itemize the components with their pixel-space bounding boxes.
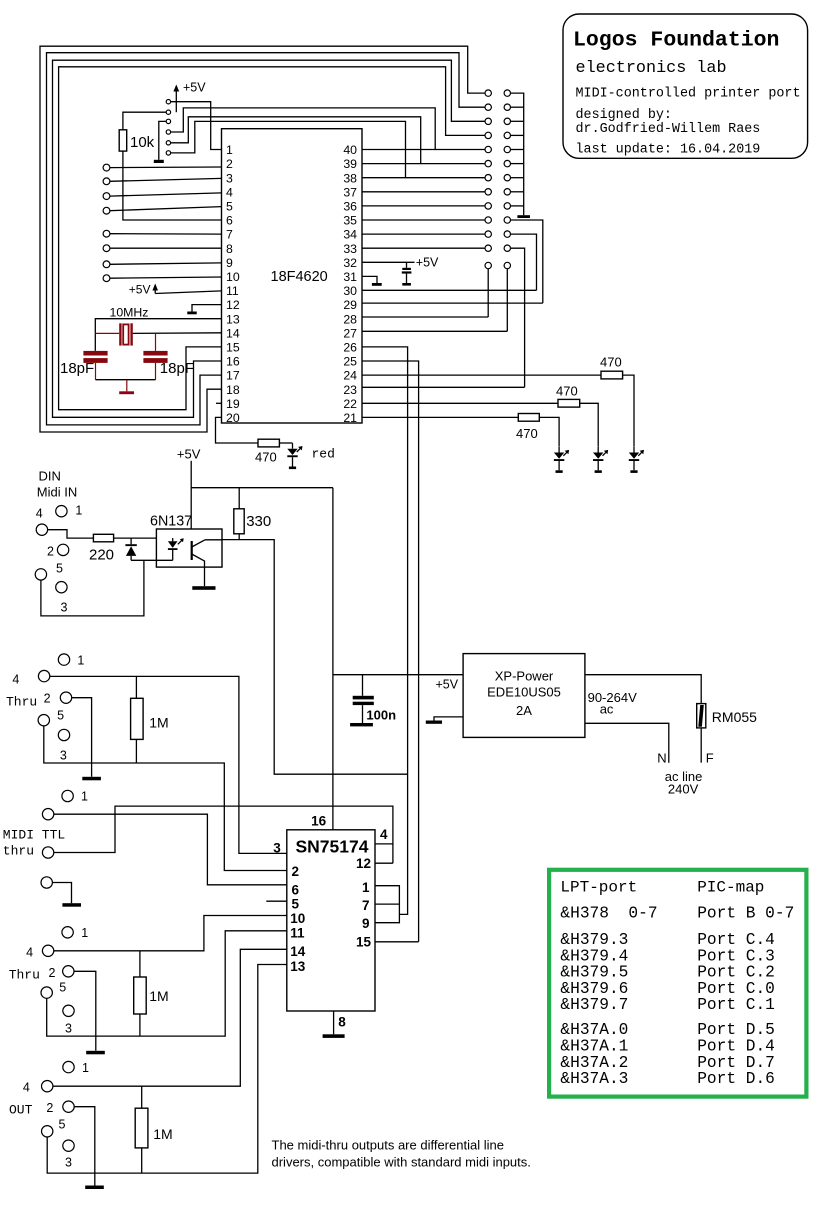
X6 pad 3 — [63, 1140, 74, 1151]
svg-text:1M: 1M — [153, 1126, 172, 1142]
svg-text:&H378 0-7: &H378 0-7 — [560, 905, 657, 923]
svg-text:5: 5 — [292, 896, 300, 911]
svg-text:27: 27 — [343, 326, 357, 340]
crystal X1 10MHz — [95, 305, 148, 345]
svg-text:DIN: DIN — [39, 469, 61, 484]
LED D1 red — [287, 443, 302, 469]
svg-text:8: 8 — [226, 242, 233, 256]
svg-text:21: 21 — [343, 411, 357, 425]
svg-text:EDE10US05: EDE10US05 — [487, 685, 561, 700]
DIN X2 pad 3 — [56, 582, 67, 593]
svg-text:2: 2 — [292, 864, 300, 879]
svg-text:31: 31 — [343, 270, 357, 284]
pad P9 left — [103, 261, 110, 268]
wire U1 pin21 to R5 — [362, 416, 518, 418]
svg-text:18: 18 — [226, 383, 240, 397]
wire U1 pin25 long to U2 pin15 — [362, 361, 419, 942]
wire X5 pin5 to U2 pin11 — [47, 931, 287, 1036]
label 90-264V ac — [588, 690, 637, 716]
ground at U3 emitter — [192, 561, 215, 590]
wire U1 pin26 long to U2 inputs — [362, 347, 408, 915]
jumper pad J5 — [166, 141, 170, 145]
wire U3 output to U1 pin26 node — [222, 540, 408, 775]
U2 pin labels — [273, 813, 388, 1029]
svg-text:15: 15 — [226, 341, 240, 355]
pad row12 right — [504, 245, 510, 251]
svg-text:MIDI-controlled printer port: MIDI-controlled printer port — [576, 87, 801, 102]
svg-text:11: 11 — [226, 284, 239, 298]
U3 internal LED — [168, 538, 184, 560]
svg-text:15: 15 — [356, 935, 372, 950]
pad row7 left — [485, 175, 491, 181]
DIN X2 labels — [36, 504, 83, 615]
wire J4 to pad row5 — [171, 108, 436, 150]
pad row13 left — [485, 262, 491, 268]
pad row12 left — [485, 245, 491, 251]
svg-text:2: 2 — [49, 966, 56, 980]
svg-text:40: 40 — [343, 143, 357, 157]
wire U1 pin32 +5V — [362, 256, 439, 270]
svg-text:330: 330 — [246, 513, 271, 530]
svg-text:19: 19 — [226, 397, 240, 411]
svg-text:13: 13 — [226, 312, 240, 326]
wire DIN pin4 to R6 — [48, 530, 94, 538]
svg-text:5: 5 — [57, 708, 64, 722]
svg-text:18pF: 18pF — [60, 360, 94, 377]
svg-text:470: 470 — [600, 354, 622, 369]
wire U2 pin5 stub — [266, 900, 287, 902]
ground at jumper J3 — [154, 121, 166, 163]
svg-text:13: 13 — [290, 959, 306, 974]
pad row11 left — [485, 231, 491, 237]
resistor R10 1M — [135, 1086, 172, 1173]
svg-text:100n: 100n — [366, 708, 396, 723]
resistor R5 470 — [516, 414, 539, 441]
svg-text:&H379.3: &H379.3 — [560, 931, 628, 949]
svg-text:Thru: Thru — [6, 695, 37, 710]
Thru connector X3 pad 1 — [58, 654, 69, 665]
wire U2 pin4 stub — [375, 843, 393, 845]
svg-text:2: 2 — [46, 1101, 53, 1115]
svg-text:26: 26 — [343, 341, 357, 355]
pad row3 right — [504, 118, 510, 124]
title box frame — [563, 14, 808, 158]
svg-text:9: 9 — [226, 256, 233, 270]
svg-text:12: 12 — [226, 298, 240, 312]
wire pad to U1 pin2 — [110, 166, 222, 169]
svg-text:7: 7 — [226, 228, 233, 242]
TTL connector X4 pad 1 — [62, 790, 73, 801]
svg-text:5: 5 — [59, 980, 66, 994]
op IC U1 18F4620 body — [222, 129, 363, 423]
svg-text:8: 8 — [338, 1014, 346, 1029]
svg-text:3: 3 — [65, 1156, 72, 1170]
X4 pad b — [42, 847, 53, 858]
pad P4 left — [103, 193, 110, 200]
svg-text:18F4620: 18F4620 — [271, 269, 328, 285]
wire DIN pin5 return — [41, 560, 144, 616]
svg-text:25: 25 — [343, 355, 357, 369]
resistor R2 470 — [255, 439, 279, 464]
capacitor C2 18pF right — [143, 333, 194, 379]
svg-text:5: 5 — [59, 1117, 66, 1131]
svg-text:32: 32 — [343, 256, 357, 270]
DIN X2 pad 2 — [57, 544, 68, 555]
svg-text:22: 22 — [343, 397, 357, 411]
wire U1 pin20 to R2 — [216, 417, 259, 443]
svg-text:Port C.2: Port C.2 — [697, 964, 775, 982]
svg-text:1M: 1M — [149, 988, 168, 1004]
X4 pad gnd — [41, 877, 52, 888]
wire U1 pin23 — [362, 386, 525, 388]
svg-text:24: 24 — [343, 369, 357, 383]
X3 pad 4 — [38, 670, 49, 681]
X5 pad 4 — [42, 945, 53, 956]
svg-text:Thru: Thru — [9, 968, 40, 983]
X3 pad 3 — [58, 729, 69, 740]
U1 left pin numbers 1-20 — [226, 143, 240, 425]
svg-text:N: N — [657, 751, 666, 766]
wire R2 to LED D1 — [279, 442, 292, 444]
svg-text:4: 4 — [23, 1080, 30, 1094]
svg-text:4: 4 — [226, 185, 233, 199]
X6 pad 5 — [42, 1126, 53, 1137]
svg-text:1: 1 — [226, 143, 233, 157]
LED D4 — [629, 447, 644, 473]
note text midi-thru outputs — [272, 1138, 531, 1170]
svg-text:6: 6 — [226, 214, 233, 228]
wire pad to U1 pin5 — [110, 207, 222, 211]
wire U2 pins 1 7 9 tie — [375, 886, 399, 923]
wire ground bus right pads — [511, 93, 524, 215]
X6 labels — [23, 1061, 89, 1170]
capacitor C4 100n — [350, 675, 396, 727]
svg-text:XP-Power: XP-Power — [495, 669, 554, 684]
power +5V arrow top — [173, 81, 206, 113]
wire U1 pin14 to crystal X1 — [133, 332, 222, 335]
svg-text:electronics lab: electronics lab — [576, 59, 727, 78]
table frame LPT-port PIC-map — [549, 870, 806, 1097]
svg-text:&H37A.3: &H37A.3 — [560, 1070, 628, 1088]
svg-text:2: 2 — [44, 692, 51, 706]
DIN X2 pad 5 — [35, 569, 46, 580]
pad P10 left — [103, 275, 110, 282]
svg-text:+5V: +5V — [177, 446, 201, 461]
ground at pad bus — [517, 215, 530, 218]
pad row6 left — [485, 160, 491, 166]
svg-text:5: 5 — [56, 561, 63, 575]
jumper pad J2 — [166, 110, 170, 114]
svg-text:9: 9 — [362, 916, 370, 931]
wire U1 pin13 to C1 — [95, 319, 221, 351]
pad row13 right — [504, 262, 510, 268]
wire R1 bottom to U1 pin6 — [123, 151, 222, 220]
wire RM055 to F — [700, 728, 702, 763]
svg-text:16: 16 — [226, 355, 240, 369]
X5 labels — [26, 926, 88, 1035]
svg-text:last update: 16.04.2019: last update: 16.04.2019 — [576, 142, 761, 157]
svg-text:Port C.1: Port C.1 — [697, 996, 775, 1014]
svg-text:Port D.6: Port D.6 — [697, 1070, 775, 1088]
wire pad row13 left to U1 pin28 — [362, 269, 488, 317]
svg-text:4: 4 — [36, 507, 43, 521]
svg-text:6N137: 6N137 — [150, 513, 192, 529]
X5 pad 3 — [63, 1005, 74, 1016]
wire R4 to LED D3 — [580, 403, 599, 447]
ground stub at PSU input — [426, 717, 463, 724]
svg-text:3: 3 — [60, 749, 67, 763]
svg-text:4: 4 — [380, 827, 388, 842]
svg-text:1: 1 — [75, 504, 82, 518]
resistor R3 470 — [600, 354, 623, 379]
X3 labels — [12, 654, 84, 763]
svg-text:5: 5 — [226, 200, 233, 214]
pad row4 left — [485, 132, 491, 138]
svg-text:7: 7 — [362, 898, 370, 913]
LED D3 — [593, 447, 608, 473]
svg-text:2A: 2A — [516, 703, 532, 718]
wire U2 pin12 — [375, 862, 393, 864]
svg-text:3: 3 — [273, 840, 281, 855]
LED D2 — [554, 447, 569, 473]
svg-text:3: 3 — [61, 601, 68, 615]
svg-text:17: 17 — [226, 369, 240, 383]
svg-text:35: 35 — [343, 214, 357, 228]
wire X4 signal to U2 pin6 — [54, 814, 287, 885]
svg-text:LPT-port: LPT-port — [560, 879, 637, 897]
svg-text:red: red — [312, 446, 335, 461]
wire U1 pin17 loop to pad row2 — [47, 53, 485, 425]
ground at X6 pin2 — [74, 1107, 104, 1189]
svg-text:33: 33 — [343, 242, 357, 256]
svg-text:20: 20 — [226, 411, 240, 425]
X6 pad 4 — [42, 1081, 53, 1092]
wire J5 to pad row6 — [171, 117, 421, 164]
DIN connector X2 pad 1 — [56, 506, 67, 517]
wire +5V node to PSU — [333, 674, 463, 676]
svg-text:Port B 0-7: Port B 0-7 — [697, 905, 794, 923]
svg-text:36: 36 — [343, 200, 357, 214]
svg-text:12: 12 — [356, 856, 371, 871]
svg-text:1: 1 — [82, 1061, 89, 1075]
wire crystal caps common — [96, 379, 156, 381]
U1 right pin numbers 40-21 — [343, 143, 357, 425]
resistor R8 1M — [131, 676, 169, 763]
ground at U1 pin12 — [187, 305, 221, 315]
resistor R1 10k — [119, 130, 154, 151]
svg-text:Logos Foundation: Logos Foundation — [573, 29, 779, 53]
wire R3 to LED D4 — [623, 375, 634, 447]
pad P8 left — [103, 245, 110, 252]
wire X4 +5V to U2 pins 4 12 16 — [54, 806, 393, 863]
wire U1 pin24 to R3 — [362, 374, 601, 376]
capacitor C3 at pin32 — [402, 262, 412, 285]
pad row3 left — [485, 118, 491, 124]
labels N F ac line 240V — [657, 751, 714, 797]
svg-text:ac: ac — [600, 702, 614, 717]
svg-text:Port D.4: Port D.4 — [697, 1038, 775, 1056]
pad row2 left — [485, 104, 491, 110]
svg-text:34: 34 — [343, 228, 357, 242]
pad P7 left — [103, 230, 110, 237]
pad row2 right — [504, 104, 510, 110]
svg-text:37: 37 — [343, 185, 357, 199]
pad row4 right — [504, 132, 510, 138]
svg-text:+5V: +5V — [183, 81, 206, 95]
wire pad row10 to U1 pin29 — [511, 220, 543, 303]
svg-text:dr.Godfried-Willem Raes: dr.Godfried-Willem Raes — [576, 122, 761, 137]
wire +5V rail horizontal — [191, 487, 333, 489]
svg-text:30: 30 — [343, 284, 357, 298]
ground at crystal — [119, 380, 134, 394]
pad row9 left — [485, 203, 491, 209]
pad row10 left — [485, 217, 491, 223]
X5 pad 2 — [63, 966, 74, 977]
ground at X5 pin2 — [74, 971, 105, 1054]
wire U1 pin18 loop to pad row1 — [40, 46, 485, 432]
power +5V at U1 pin11 — [129, 282, 222, 296]
svg-text:&H37A.1: &H37A.1 — [560, 1038, 628, 1056]
svg-text:23: 23 — [343, 383, 357, 397]
svg-text:16: 16 — [311, 813, 327, 828]
svg-text:+5V: +5V — [436, 678, 459, 692]
svg-text:drivers, compatible with stand: drivers, compatible with standard midi i… — [272, 1155, 531, 1170]
pad row6 right — [504, 160, 510, 166]
diode D5 protection — [125, 538, 136, 560]
wire U1 pin15 loop to pad row4 — [59, 67, 485, 410]
label DIN Midi IN — [37, 469, 77, 500]
svg-text:240V: 240V — [668, 782, 699, 797]
wire X6 pin5 to U2 pin13 — [47, 965, 287, 1174]
svg-text:3: 3 — [65, 1021, 72, 1035]
OUT connector X6 pad 1 — [63, 1061, 74, 1072]
svg-text:220: 220 — [89, 546, 114, 563]
capacitor C1 18pF left — [60, 351, 108, 380]
wire pad to U1 pin10 — [110, 277, 222, 278]
pad row7 right — [504, 175, 510, 181]
X4 pad a — [42, 809, 53, 820]
wire pad row12 to U1 pin23 — [511, 248, 525, 387]
pad P2 left — [103, 164, 110, 171]
op PSU XP-Power EDE10US05 body — [463, 654, 585, 738]
wire pad to U1 pin4 — [110, 193, 222, 196]
pad row8 right — [504, 189, 510, 195]
ground at X3 pin2 — [72, 698, 101, 781]
svg-text:1M: 1M — [149, 715, 168, 731]
wire U1 pin19 stub — [216, 402, 222, 404]
wire PSU neutral to N — [585, 723, 669, 762]
pad row1 left — [485, 90, 491, 96]
Thru connector X5 pad 1 — [62, 927, 73, 938]
wire U1 pin29 — [362, 302, 543, 304]
svg-text:designed by:: designed by: — [576, 108, 672, 123]
svg-text:10: 10 — [290, 911, 305, 926]
wire U1 pin16 loop to pad row3 — [53, 60, 485, 417]
pad row11 right — [504, 231, 510, 237]
svg-text:thru: thru — [3, 844, 34, 859]
svg-text:39: 39 — [343, 157, 357, 171]
wire J6 to pad row7 — [171, 121, 406, 177]
wire J1 to U1 pin1 — [171, 102, 222, 150]
X5 pad 5 — [41, 987, 52, 998]
svg-text:10MHz: 10MHz — [110, 305, 149, 319]
wire pad row13 right to U1 pin27 — [362, 269, 507, 332]
X6 pad 2 — [63, 1101, 74, 1112]
resistor R9 1M — [134, 951, 169, 1036]
DIN X2 pad 4 — [36, 524, 47, 535]
jumper pad J3 — [166, 119, 170, 123]
svg-text:Port D.5: Port D.5 — [697, 1021, 775, 1039]
svg-text:2: 2 — [47, 545, 54, 559]
jumper pad J1 — [166, 100, 170, 104]
X3 pad 5 — [38, 715, 49, 726]
svg-text:SN75174: SN75174 — [296, 837, 369, 857]
svg-text:6: 6 — [292, 883, 300, 898]
wire D5 to U3 cathode pin — [131, 559, 173, 561]
pad row10 right — [504, 217, 510, 223]
svg-text:14: 14 — [226, 326, 240, 340]
svg-text:OUT: OUT — [9, 1103, 33, 1118]
op IC U3 6N137 body — [150, 513, 222, 567]
svg-text:3: 3 — [226, 171, 233, 185]
ground at X4 — [52, 883, 81, 907]
X4 labels — [3, 790, 88, 859]
wire R5 to LED D2 — [539, 417, 559, 446]
pad P5 left — [103, 207, 110, 214]
wire pad to U1 pin3 — [110, 178, 222, 181]
jumper pad J6 — [166, 151, 170, 155]
wires U1 pins 40-33 to left pads — [362, 150, 485, 249]
wire pad to U1 pin8 — [110, 247, 222, 249]
wire R6 to opto U3 — [114, 537, 157, 539]
ground at U2 pin8 — [323, 1011, 345, 1038]
pad P3 left — [103, 178, 110, 185]
svg-text:470: 470 — [556, 384, 578, 399]
svg-text:28: 28 — [343, 312, 357, 326]
U3 internal transistor — [192, 540, 222, 562]
svg-text:14: 14 — [290, 944, 306, 959]
svg-text:18pF: 18pF — [160, 360, 194, 377]
svg-text:MIDI TTL: MIDI TTL — [3, 828, 65, 843]
X3 pad 2 — [60, 692, 71, 703]
svg-text:&H379.7: &H379.7 — [560, 996, 628, 1014]
svg-text:1: 1 — [77, 654, 84, 668]
wire X5 pin4 to U2 pin10 — [54, 916, 287, 951]
pad row9 right — [504, 203, 510, 209]
svg-text:PIC-map: PIC-map — [697, 879, 764, 897]
wire X3 pin5 to U2 pin2 — [44, 726, 287, 871]
power +5V at U3 — [177, 446, 201, 529]
ground at U1 pin31 — [362, 276, 382, 285]
resistor R7 330 — [234, 488, 271, 540]
wire J2 to R1 top — [123, 112, 166, 130]
wire +5V rail vertical long to U2 pin16 — [332, 488, 334, 830]
op IC U2 SN75174 body — [287, 830, 375, 1011]
pad row8 left — [485, 189, 491, 195]
wire U1 pin22 to R4 — [362, 402, 558, 404]
svg-text:38: 38 — [343, 171, 357, 185]
wire U1 pin30 — [362, 289, 537, 291]
svg-text:1: 1 — [362, 880, 370, 895]
svg-text:10k: 10k — [130, 134, 155, 151]
wire pad to U1 pin7 — [110, 233, 222, 235]
svg-text:Midi IN: Midi IN — [37, 485, 77, 500]
svg-text:470: 470 — [516, 426, 538, 441]
svg-text:F: F — [706, 751, 714, 766]
svg-text:The midi-thru outputs are diff: The midi-thru outputs are differential l… — [272, 1138, 504, 1153]
svg-text:&H379.5: &H379.5 — [560, 964, 628, 982]
wire pad row11 to U1 pin30 — [511, 234, 537, 290]
